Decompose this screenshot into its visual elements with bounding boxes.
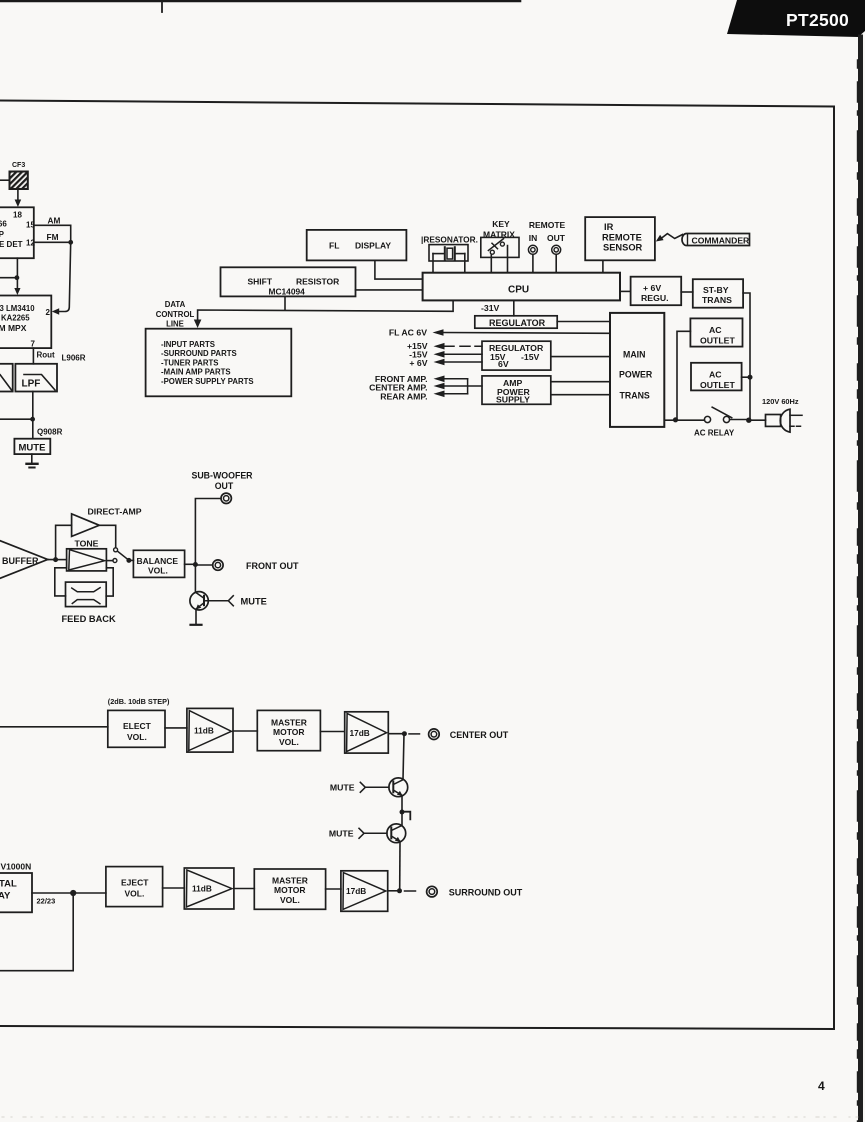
key matrix switch box [481, 237, 519, 257]
svg-text:CPU: CPU [508, 284, 529, 295]
wire tone to switch [106, 560, 113, 562]
svg-text:OUTLET: OUTLET [700, 380, 735, 390]
surround out jack [427, 886, 438, 897]
+6V feed [409, 358, 482, 368]
data control line bus [194, 301, 453, 328]
svg-text:EJECT: EJECT [121, 878, 149, 888]
svg-text:RESISTOR: RESISTOR [296, 277, 339, 287]
selector switch contacts [113, 548, 128, 563]
wire MC14094 to data line [284, 296, 286, 310]
svg-text:4: 4 [818, 1079, 825, 1093]
11dB amp box center [187, 708, 233, 752]
svg-text:VOL.: VOL. [127, 732, 147, 742]
svg-text:MASTER: MASTER [272, 876, 308, 886]
svg-text:11dB: 11dB [192, 884, 212, 894]
svg-text:LINE: LINE [166, 320, 184, 329]
wire IR sensor to CPU [602, 260, 604, 272]
svg-text:TAL: TAL [0, 879, 17, 890]
wire 11dB to master motor vol [233, 730, 257, 732]
remote in jack [528, 245, 537, 254]
svg-text:VOL.: VOL. [280, 895, 300, 905]
-31V regulator box [475, 316, 557, 328]
svg-text:COMMANDER: COMMANDER [692, 236, 751, 246]
junction node surround feed [70, 890, 76, 896]
wire elect vol to 11dB [165, 727, 187, 729]
junction dot AC plug [746, 418, 751, 423]
REAR AMP feed [380, 379, 467, 402]
svg-text:OUT: OUT [547, 233, 566, 243]
ground below front mute [191, 610, 202, 625]
svg-text:OUTLET: OUTLET [700, 336, 735, 346]
wire IF IC to MPX IC [14, 258, 20, 295]
svg-text:|RESONATOR.: |RESONATOR. [421, 235, 478, 245]
svg-text:VOL.: VOL. [279, 737, 299, 747]
dash to surround jack [405, 890, 416, 892]
LPF L906R box [15, 364, 57, 392]
wire +6V regu to ST-BY trans [681, 291, 693, 293]
svg-text:120V 60Hz: 120V 60Hz [762, 397, 799, 406]
wire node to front mute transistor [194, 565, 196, 592]
svg-text:ELECT: ELECT [123, 721, 152, 731]
REMOTE IN OUT labels [529, 220, 566, 243]
wire master vol to 17dB [320, 731, 344, 733]
digital delay box [0, 873, 32, 912]
15V regulator box [482, 341, 551, 370]
remote jack wires to CPU [533, 254, 556, 272]
remote out jack [552, 245, 561, 254]
svg-text:22/23: 22/23 [37, 897, 56, 906]
svg-text:REMOTE: REMOTE [529, 220, 566, 230]
wire eject vol to 11dB [163, 887, 185, 889]
17dB amp box center [345, 712, 389, 753]
svg-text:+ 6V: + 6V [409, 358, 427, 368]
wire to direct amp [48, 525, 72, 559]
svg-text:MC14094: MC14094 [269, 287, 306, 297]
svg-text:2266: 2266 [0, 220, 7, 229]
svg-text:MOTOR: MOTOR [273, 727, 304, 737]
svg-text:DIRECT-AMP: DIRECT-AMP [88, 507, 142, 517]
wire CPU to -31V regulator [513, 300, 515, 315]
svg-text:(2dB. 10dB STEP): (2dB. 10dB STEP) [108, 697, 170, 706]
AC plug [750, 409, 802, 432]
stand-by transformer box [693, 279, 743, 308]
wire transistor 2 to surround node [399, 842, 401, 889]
AC relay contacts [704, 407, 750, 422]
svg-text:MOTOR: MOTOR [274, 885, 305, 895]
17dB amp box surround [341, 871, 388, 912]
SUB-WOOFER OUT label [191, 471, 253, 492]
svg-text:POWER: POWER [619, 370, 653, 380]
svg-text:-TUNER PARTS: -TUNER PARTS [161, 358, 218, 367]
key matrix wires to CPU [491, 246, 507, 273]
svg-text:CONTROL: CONTROL [156, 310, 195, 319]
border frame of diagram [0, 101, 834, 1030]
wire junction to MPX pin 2 with arrow [52, 242, 71, 314]
svg-text:SUPPLY: SUPPLY [496, 395, 530, 405]
svg-text:IN: IN [529, 233, 538, 243]
wires amp supply to main trans [551, 382, 610, 395]
wire FL DISPLAY to CPU [375, 260, 423, 279]
wire AC outlet 2 to AC line [742, 376, 750, 378]
center out jack [429, 729, 440, 740]
controlled parts list box [146, 329, 292, 397]
FRONT AMP feed [375, 374, 468, 384]
wire MC14094 to CPU [356, 289, 423, 291]
sub-woofer jack [221, 493, 231, 503]
amp power supply box [482, 376, 551, 405]
svg-text:OUT: OUT [215, 481, 234, 491]
-15V feed [409, 350, 482, 360]
svg-text:CENTER OUT: CENTER OUT [450, 730, 509, 740]
svg-text:E DET: E DET [0, 240, 23, 249]
wire 15V regulator to main trans [551, 356, 610, 358]
FL DISPLAY box [307, 230, 407, 261]
svg-text:L906R: L906R [62, 354, 86, 363]
PT2500 model banner [727, 0, 865, 37]
svg-text:MUTE: MUTE [19, 443, 46, 454]
remote commander handset [682, 234, 750, 246]
svg-text:FL AC 6V: FL AC 6V [389, 328, 427, 338]
svg-text:REGU.: REGU. [641, 293, 669, 303]
direct amp triangle [72, 514, 100, 537]
junction node surround out [397, 888, 402, 893]
wire balance vol to front node [185, 563, 196, 565]
resonator wires to CPU [433, 254, 465, 273]
mute transistor 1 [360, 778, 407, 797]
buffer amp triangle [0, 538, 48, 582]
wire -31V regulator to main trans [557, 321, 610, 323]
partial filter box at page edge [0, 364, 13, 392]
resonator X901 [421, 235, 478, 262]
mute transistor 2 [359, 812, 406, 843]
svg-text:VOL.: VOL. [148, 566, 168, 576]
svg-text:KA2265: KA2265 [1, 314, 30, 323]
KEY MATRIX label [483, 219, 515, 239]
IC902 LM3410 FM MPX box [0, 296, 51, 349]
shift register MC14094 box [221, 267, 356, 296]
svg-text:Q908R: Q908R [37, 428, 63, 437]
svg-text:-15V: -15V [521, 352, 540, 362]
svg-text:MUTE: MUTE [330, 783, 355, 793]
svg-text:-31V: -31V [481, 303, 500, 313]
wire transistor 1 to node [401, 796, 403, 813]
svg-text:DATA: DATA [165, 300, 186, 309]
FM wire from pin 12 [34, 232, 71, 242]
svg-text:BALANCE: BALANCE [137, 556, 179, 566]
svg-text:REMOTE: REMOTE [602, 233, 642, 243]
wire delay to eject vol [32, 892, 106, 894]
+6V regulator box [631, 277, 682, 306]
AC outlet 2 box [691, 363, 742, 391]
svg-text:SHIFT: SHIFT [248, 277, 273, 287]
master motor volume box center [257, 710, 320, 750]
svg-text:BUFFER: BUFFER [2, 556, 39, 566]
wire 17dB to surround node [388, 890, 400, 892]
wire 17dB to center node [388, 733, 404, 735]
front mute transistor [190, 592, 233, 610]
svg-text:ST-BY: ST-BY [703, 285, 729, 295]
svg-text:MAIN: MAIN [623, 350, 645, 360]
svg-text:REGULATOR: REGULATOR [489, 318, 546, 328]
elect volume box [108, 710, 165, 747]
DATA CONTROL LINE label [156, 300, 195, 329]
eject volume box [106, 867, 163, 907]
svg-text:SURROUND OUT: SURROUND OUT [449, 888, 523, 898]
FL AC 6V feed [389, 328, 610, 338]
wire master vol to 17dB surround [326, 888, 341, 890]
svg-text:CF3: CF3 [12, 162, 25, 169]
svg-text:-MAIN AMP PARTS: -MAIN AMP PARTS [161, 368, 231, 377]
IR remote sensor box [585, 217, 655, 260]
wire AC outlet 1 to relay node [677, 331, 690, 419]
wire node down to mute transistor 1 [403, 734, 404, 780]
svg-text:17dB: 17dB [350, 728, 370, 738]
ceramic filter CF3 [10, 162, 28, 189]
svg-text:KEY: KEY [492, 219, 510, 229]
main power transformer box [610, 313, 664, 427]
wire input to elect vol [0, 726, 108, 728]
feedback loop wires [55, 568, 113, 596]
IR beam zigzag arrow [656, 234, 683, 242]
svg-text:7: 7 [31, 340, 36, 349]
IC901 IF AMP / DET box [0, 207, 35, 258]
svg-text:18: 18 [13, 211, 22, 220]
feedback network box [66, 582, 107, 607]
wire 11dB to master motor vol surround [234, 888, 254, 890]
CPU box [423, 273, 620, 301]
wire CPU to +6V regu [620, 290, 631, 292]
svg-text:11dB: 11dB [194, 726, 214, 736]
svg-text:AC: AC [709, 370, 722, 380]
AM wire from pin 15 [34, 216, 71, 243]
svg-text:MP: MP [0, 230, 5, 239]
svg-text:FRONT OUT: FRONT OUT [246, 561, 299, 571]
svg-text:MUTE: MUTE [241, 597, 267, 607]
svg-text:SUB-WOOFER: SUB-WOOFER [191, 471, 253, 481]
junction dot AM/FM [68, 240, 73, 245]
svg-text:AC RELAY: AC RELAY [694, 429, 735, 438]
svg-text:REAR AMP.: REAR AMP. [380, 392, 427, 402]
svg-text:FEED BACK: FEED BACK [62, 614, 117, 624]
svg-text:AC: AC [709, 325, 722, 335]
svg-text:Rout: Rout [37, 351, 56, 360]
svg-text:2: 2 [46, 308, 51, 317]
wire junction to tone box [56, 559, 67, 561]
dash to center jack [409, 733, 420, 735]
svg-text:M MPX: M MPX [0, 323, 27, 333]
tone amp box [67, 549, 107, 571]
wire ST-BY trans to AC line [743, 293, 750, 420]
wire CF3 to IF IC with arrow [15, 189, 22, 207]
svg-text:-SURROUND PARTS: -SURROUND PARTS [161, 349, 237, 358]
junction dot relay left [673, 417, 678, 422]
svg-text:VOL.: VOL. [125, 889, 145, 899]
branch wire down and left [0, 893, 73, 971]
svg-text:TRANS: TRANS [620, 391, 650, 401]
scan bottom speckle [2, 1116, 863, 1118]
svg-text:-POWER SUPPLY PARTS: -POWER SUPPLY PARTS [161, 377, 254, 386]
wire main trans to relay [664, 419, 704, 421]
svg-text:PT2500: PT2500 [786, 10, 849, 30]
svg-text:LPF: LPF [22, 379, 41, 390]
ground below Q908R mute [27, 454, 38, 467]
junction node to left [0, 417, 35, 422]
svg-text:3 LM3410: 3 LM3410 [0, 304, 35, 313]
junction node between transistors [400, 810, 411, 820]
junction node front out [193, 562, 198, 567]
junction node after buffer [53, 557, 58, 562]
wire to front out jack [195, 564, 212, 566]
junction node center out [402, 731, 407, 736]
scan top edge artifact [0, 1, 520, 12]
11dB amp box surround [184, 868, 234, 909]
svg-text:V1000N: V1000N [1, 862, 32, 872]
AC outlet 1 box [690, 318, 742, 346]
junction node to left [0, 275, 19, 280]
balance volume box [133, 550, 184, 577]
svg-text:FL: FL [329, 241, 339, 251]
svg-text:MUTE: MUTE [329, 829, 354, 839]
scan right edge streak [858, 37, 861, 1122]
svg-text:6V: 6V [498, 359, 509, 369]
wire pin7 to LPF [32, 348, 34, 364]
svg-text:TRANS: TRANS [702, 295, 732, 305]
svg-text:+ 6V: + 6V [643, 283, 661, 293]
svg-text:AY: AY [0, 891, 11, 902]
master motor volume box surround [254, 869, 325, 909]
wire LPF down [32, 392, 34, 439]
junction node after switch [126, 558, 131, 563]
svg-text:FM: FM [47, 232, 59, 242]
CENTER AMP feed [369, 383, 482, 393]
svg-text:DISPLAY: DISPLAY [355, 241, 391, 251]
svg-text:MASTER: MASTER [271, 718, 307, 728]
svg-text:-INPUT PARTS: -INPUT PARTS [161, 340, 215, 349]
wire to sub-woofer jack [195, 499, 220, 565]
svg-text:SENSOR: SENSOR [603, 243, 643, 253]
svg-text:17dB: 17dB [346, 886, 366, 896]
junction dot AC outlet 2 [748, 375, 753, 380]
svg-text:AM: AM [48, 216, 61, 226]
mute switch Q908R box [14, 439, 50, 454]
+15V feed [407, 341, 482, 351]
svg-text:TONE: TONE [75, 539, 99, 549]
wire switch to balance vol [129, 559, 134, 561]
svg-text:IR: IR [604, 222, 614, 232]
front out jack [213, 560, 223, 570]
wire into CF3 [0, 179, 10, 181]
wire direct amp to switch [99, 525, 115, 547]
